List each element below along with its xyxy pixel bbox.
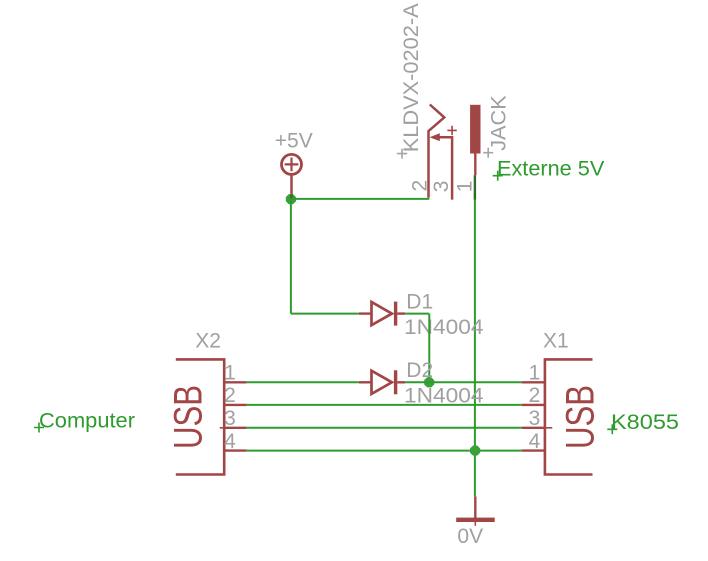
wire row 2 bbox=[246, 404, 521, 406]
svg-text:Externe 5V: Externe 5V bbox=[497, 158, 604, 181]
X2 pin 1 bbox=[224, 381, 246, 383]
svg-text:1: 1 bbox=[529, 362, 541, 385]
label Computer bbox=[39, 410, 135, 433]
X1 origin cross bbox=[543, 427, 552, 429]
X1 USB text bbox=[559, 385, 603, 449]
D2 value 1N4004 bbox=[404, 385, 484, 408]
svg-text:X1: X1 bbox=[543, 330, 569, 353]
net label Externe 5V bbox=[497, 158, 604, 181]
X1 pin 1 bbox=[522, 381, 546, 383]
D1 name bbox=[406, 291, 433, 314]
jack pin name 3 bbox=[430, 181, 453, 193]
wire D1 cathode to vertical bbox=[405, 313, 429, 315]
ground symbol 0V bar bbox=[456, 518, 495, 526]
JACK label origin cross bbox=[483, 148, 493, 158]
X1 pin 4 bbox=[522, 449, 546, 451]
wire jack pin1 overlap segment bbox=[474, 175, 476, 200]
supply symbol +5V circle-plus bbox=[282, 154, 302, 194]
X2 pin 4 bbox=[224, 449, 246, 451]
svg-text:3: 3 bbox=[529, 407, 541, 430]
svg-text:4: 4 bbox=[224, 430, 236, 453]
X1 pin 1 number bbox=[529, 362, 541, 385]
X1 pin 3 number bbox=[529, 407, 541, 430]
X1 name bbox=[543, 330, 569, 353]
jack pin name 1 bbox=[454, 181, 477, 193]
svg-text:KLDVX-0202-A: KLDVX-0202-A bbox=[400, 3, 423, 152]
jack connector pin 3 with arrow bbox=[430, 133, 453, 199]
wire +5V junction down to D1 row bbox=[290, 199, 292, 314]
X2 pin 3 bbox=[224, 427, 246, 429]
svg-text:USB: USB bbox=[559, 385, 603, 449]
K8055 origin cross bbox=[607, 424, 617, 434]
diode D1 bbox=[359, 302, 405, 326]
svg-text:3: 3 bbox=[224, 407, 236, 430]
Externe 5V origin cross bbox=[493, 171, 503, 181]
jack pin name 2 bbox=[409, 180, 432, 192]
wire jack pin1 down to ground bbox=[474, 200, 476, 497]
connector X2 body bbox=[176, 359, 224, 474]
svg-text:2: 2 bbox=[409, 180, 432, 192]
wire row 4 bbox=[246, 450, 521, 452]
connector X1 body bbox=[545, 359, 593, 474]
jack connector pin 2 bbox=[429, 105, 445, 198]
svg-text:4: 4 bbox=[529, 430, 541, 453]
svg-text:+5V: +5V bbox=[275, 130, 313, 153]
X2 USB text bbox=[166, 385, 210, 449]
svg-text:1N4004: 1N4004 bbox=[404, 316, 484, 339]
KLDVX label origin cross bbox=[397, 149, 407, 159]
wire D1 down to row 1 bbox=[428, 314, 430, 383]
X2 name bbox=[195, 330, 221, 353]
junction at +5V node bbox=[286, 194, 296, 204]
ground label 0V bbox=[457, 525, 483, 548]
svg-text:USB: USB bbox=[166, 385, 210, 449]
jack value JACK bbox=[487, 95, 510, 151]
supply symbol +5V label bbox=[275, 130, 313, 153]
X1 pin 3 bbox=[522, 427, 546, 429]
D1 value 1N4004 bbox=[404, 316, 484, 339]
svg-text:2: 2 bbox=[224, 384, 236, 407]
junction on row 1 bbox=[424, 377, 434, 387]
jack connector pin 1 sleeve bar bbox=[470, 105, 480, 175]
svg-text:X2: X2 bbox=[195, 330, 221, 353]
wire to D1 anode bbox=[291, 313, 359, 315]
X1 pin 2 number bbox=[529, 384, 541, 407]
X2 pin 3 number bbox=[224, 407, 236, 430]
X2 origin cross bbox=[220, 427, 229, 429]
jack part name KLDVX-0202-A bbox=[400, 3, 423, 152]
svg-text:D1: D1 bbox=[406, 291, 433, 314]
svg-text:D2: D2 bbox=[406, 359, 433, 382]
X1 pin 2 bbox=[522, 404, 546, 406]
jack origin cross bbox=[447, 126, 456, 135]
X1 pin 4 number bbox=[529, 430, 541, 453]
svg-text:Computer: Computer bbox=[39, 410, 135, 433]
svg-text:K8055: K8055 bbox=[611, 411, 679, 434]
wire row 1 right (D2 cathode to X1 pin1) bbox=[405, 381, 522, 383]
svg-text:0V: 0V bbox=[457, 525, 483, 548]
wire +5V junction to jack pin 2 bbox=[291, 198, 429, 200]
ground symbol 0V stem bbox=[474, 496, 476, 518]
diode D2 bbox=[359, 370, 405, 394]
Computer origin cross bbox=[34, 423, 44, 433]
X2 pin 2 bbox=[224, 404, 246, 406]
svg-text:3: 3 bbox=[430, 181, 453, 193]
svg-text:2: 2 bbox=[529, 384, 541, 407]
junction row 4 ground bbox=[470, 446, 480, 456]
svg-text:JACK: JACK bbox=[487, 95, 510, 151]
svg-text:1: 1 bbox=[224, 362, 236, 385]
X2 pin 1 number bbox=[224, 362, 236, 385]
X2 pin 4 number bbox=[224, 430, 236, 453]
svg-text:1: 1 bbox=[454, 181, 477, 193]
X2 pin 2 number bbox=[224, 384, 236, 407]
D2 name bbox=[406, 359, 433, 382]
wire row 3 bbox=[246, 427, 521, 429]
wire row 1 left (X2 pin1 to D2 anode) bbox=[246, 381, 358, 383]
label K8055 bbox=[611, 411, 679, 434]
